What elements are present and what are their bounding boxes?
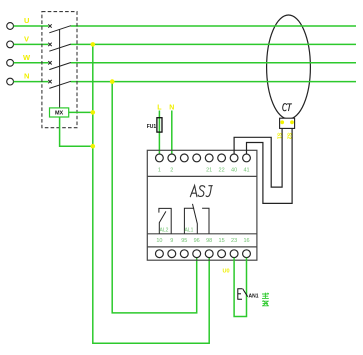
svg-text:40: 40 [231, 168, 237, 174]
test button AN1 [238, 289, 248, 300]
CT terminal dot right [290, 120, 294, 124]
svg-text:10: 10 [156, 238, 162, 244]
svg-text:W: W [23, 53, 31, 62]
black wire terminal 40 to CT left lead [234, 128, 282, 187]
breaker pole U contact [48, 24, 71, 33]
top terminal labels [158, 168, 250, 174]
black wire terminal 41 to CT right lead [247, 128, 293, 203]
breaker pole N contact [48, 80, 71, 89]
wire phase N left [14, 81, 49, 83]
svg-text:9: 9 [170, 238, 173, 244]
wire N stub into terminal 2 [171, 111, 173, 155]
terminal circle W [7, 59, 14, 66]
svg-text:L: L [157, 105, 162, 112]
wire MX right to junction [69, 111, 93, 113]
junction dot MX bottom [91, 144, 96, 149]
svg-text:V: V [24, 34, 29, 43]
relay ASJ outline [147, 150, 257, 260]
wire N-junction vertical down to terminal 96 [112, 82, 197, 313]
svg-text:23: 23 [231, 238, 237, 244]
CT terminal dot left [280, 120, 284, 124]
svg-text:MX: MX [55, 111, 64, 117]
svg-text:AL1: AL1 [185, 228, 194, 234]
svg-text:AN1: AN1 [249, 294, 259, 300]
wire phase N right [71, 81, 357, 83]
svg-text:16: 16 [243, 238, 249, 244]
terminal circle U [7, 23, 14, 30]
junction dot MX right [91, 110, 96, 115]
svg-text:AL2: AL2 [160, 228, 169, 234]
relay internal contact AL1 [184, 204, 209, 234]
svg-text:15: 15 [219, 238, 225, 244]
circuit breaker QF dashed enclosure [42, 12, 77, 128]
wire terminal 23 to 16 with AN1 [234, 258, 246, 317]
ASJ title [190, 186, 212, 197]
CT label [283, 104, 292, 111]
relay internal contact AL2 [159, 208, 171, 233]
wire phase U left [14, 25, 49, 27]
svg-text:1: 1 [158, 168, 161, 174]
breaker mechanical link [59, 30, 61, 108]
fuse FU1 [157, 118, 162, 132]
wire MX bottom leg [60, 117, 93, 146]
svg-text:21: 21 [206, 168, 212, 174]
note glyphs right of AN1 [262, 293, 269, 306]
wire phase W left [14, 62, 49, 64]
svg-text:S2: S2 [286, 133, 292, 140]
wire phase V right [71, 43, 357, 45]
junction dot on N line [110, 79, 115, 84]
wire phase W right [71, 62, 357, 64]
bottom terminal labels [156, 238, 249, 244]
breaker pole V contact [48, 43, 71, 52]
svg-text:S1: S1 [275, 133, 281, 140]
svg-text:22: 22 [219, 168, 225, 174]
svg-text:2: 2 [170, 168, 173, 174]
svg-text:U: U [24, 16, 29, 25]
svg-text:98: 98 [206, 238, 212, 244]
breaker pole W contact [48, 61, 71, 70]
svg-text:95: 95 [181, 238, 187, 244]
svg-text:96: 96 [194, 238, 200, 244]
wire V-junction vertical down to terminal 98 [93, 44, 209, 343]
svg-text:N: N [24, 72, 29, 81]
current transformer CT body [267, 15, 311, 128]
junction dot on V line [91, 42, 96, 47]
wire L stub into terminal 1 [158, 111, 160, 155]
terminal circle V [7, 41, 14, 48]
relay bottom terminals [156, 250, 251, 258]
svg-text:FU1: FU1 [147, 124, 157, 130]
terminal circle N [7, 78, 14, 85]
wire phase V left [14, 43, 49, 45]
svg-text:41: 41 [243, 168, 249, 174]
svg-text:U0: U0 [222, 269, 229, 275]
wire phase U right [71, 25, 357, 27]
relay top terminals [156, 154, 251, 162]
trip coil MX box [50, 108, 69, 117]
svg-text:N: N [169, 105, 174, 112]
